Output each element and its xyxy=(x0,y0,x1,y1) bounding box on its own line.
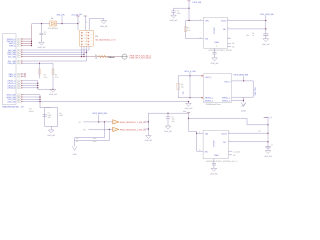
svg-text:PWMboardConn: PWMboardConn xyxy=(206,103,221,106)
svg-text:10M: 10M xyxy=(59,114,63,117)
svg-text:PWM_SENSOR2_1_W5_A1: PWM_SENSOR2_1_W5_A1 xyxy=(120,129,147,132)
svg-text:GND_W5: GND_W5 xyxy=(211,62,219,65)
svg-text:GND: GND xyxy=(214,41,219,44)
svg-text:+3V3_W5: +3V3_W5 xyxy=(192,1,202,4)
svg-text:R7: R7 xyxy=(79,121,81,124)
svg-text:SS14(SMA): SS14(SMA) xyxy=(48,27,58,30)
svg-text:W5: W5 xyxy=(79,13,82,16)
svg-text:AP2112: AP2112 xyxy=(213,28,216,35)
svg-text:SGND: SGND xyxy=(241,109,247,112)
svg-text:GND_W5: GND_W5 xyxy=(49,93,57,96)
svg-text:+3V3_2: +3V3_2 xyxy=(205,76,213,79)
svg-text:10u: 10u xyxy=(246,34,249,37)
svg-text:SD_BoardToArd_1-2-3: SD_BoardToArd_1-2-3 xyxy=(95,38,116,41)
svg-text:GND_W5: GND_W5 xyxy=(210,173,218,176)
svg-text:GND_W5: GND_W5 xyxy=(38,46,46,49)
svg-text:+3V3_SEN_W5: +3V3_SEN_W5 xyxy=(92,112,108,115)
svg-text:C7: C7 xyxy=(271,144,273,147)
svg-text:AP2112: AP2112 xyxy=(212,141,215,148)
svg-text:1u: 1u xyxy=(44,33,46,36)
svg-text:10k: 10k xyxy=(181,86,184,89)
svg-text:VIN: VIN xyxy=(205,133,209,136)
svg-text:VOUT: VOUT xyxy=(221,20,227,23)
svg-text:GPIO4_5: GPIO4_5 xyxy=(7,87,15,90)
svg-text:APWM_1: APWM_1 xyxy=(205,96,214,99)
svg-text:GND_W5: GND_W5 xyxy=(262,43,270,46)
svg-text:SDA_W5: SDA_W5 xyxy=(8,62,16,65)
svg-text:PB11_5: PB11_5 xyxy=(9,75,16,78)
svg-text:GND_W5: GND_W5 xyxy=(100,25,108,28)
svg-text:GND_W5: GND_W5 xyxy=(47,134,55,137)
svg-text:10n: 10n xyxy=(48,116,51,119)
svg-text:C8: C8 xyxy=(76,137,78,140)
svg-text:3V3_W5: 3V3_W5 xyxy=(57,14,66,17)
svg-text:12: 12 xyxy=(18,76,20,78)
svg-text:GND_W5: GND_W5 xyxy=(145,139,153,142)
svg-text:RST_5: RST_5 xyxy=(9,44,15,47)
svg-text:GND: GND xyxy=(214,154,219,157)
svg-text:5V0: 5V0 xyxy=(183,110,186,113)
svg-text:GND_W5: GND_W5 xyxy=(164,130,172,133)
svg-text:10u: 10u xyxy=(258,129,261,132)
svg-text:16: 16 xyxy=(18,88,20,90)
svg-text:+3V3_SEN_W5: +3V3_SEN_W5 xyxy=(233,74,249,77)
svg-text:AP2112K-3.3TRG1_SOT25-5_ALT_X: AP2112K-3.3TRG1_SOT25-5_ALT_X xyxy=(206,160,238,163)
svg-text:AP2112K-3.3TRG1_SOT25: AP2112K-3.3TRG1_SOT25 xyxy=(209,49,232,52)
svg-text:R8: R8 xyxy=(83,129,85,132)
svg-text:+3V3_SEN_W5: +3V3_SEN_W5 xyxy=(260,13,275,16)
svg-text:PWM_SENSOR1_1_W5_A1: PWM_SENSOR1_1_W5_A1 xyxy=(120,121,147,124)
svg-text:4.7k: 4.7k xyxy=(55,76,58,79)
svg-text:2.2u/10V: 2.2u/10V xyxy=(233,150,241,153)
svg-text:5V1_W5: 5V1_W5 xyxy=(8,55,15,58)
svg-text:10: 10 xyxy=(18,63,20,65)
svg-text:4MHz: 4MHz xyxy=(29,110,34,113)
svg-text:PWM1_1: PWM1_1 xyxy=(222,96,231,99)
svg-text:13: 13 xyxy=(18,81,20,83)
svg-text:VOUT: VOUT xyxy=(221,133,227,136)
svg-text:GND_W5: GND_W5 xyxy=(264,155,272,158)
svg-text:GND_W5: GND_W5 xyxy=(170,19,178,22)
svg-text:1u: 1u xyxy=(252,34,254,37)
svg-text:750mA: 750mA xyxy=(107,56,115,59)
svg-text:+3V3_SEN: +3V3_SEN xyxy=(254,87,257,97)
svg-text:USB2ARD45-W5: USB2ARD45-W5 xyxy=(2,106,20,109)
svg-text:D1: D1 xyxy=(51,17,53,20)
svg-text:100n: 100n xyxy=(93,140,97,143)
svg-text:4.7k: 4.7k xyxy=(187,29,190,32)
svg-text:APWM_2: APWM_2 xyxy=(205,99,214,102)
svg-text:PWR_SPLY_5V0_W5_B: PWR_SPLY_5V0_W5_B xyxy=(130,56,152,59)
svg-text:C9: C9 xyxy=(76,140,78,143)
svg-text:+3V3_1: +3V3_1 xyxy=(224,81,232,84)
svg-text:GND_W5: GND_W5 xyxy=(185,107,193,110)
svg-text:100n: 100n xyxy=(177,12,181,15)
svg-text:4.7k: 4.7k xyxy=(44,76,47,79)
svg-text:20: 20 xyxy=(18,101,20,103)
svg-text:GND: GND xyxy=(73,153,78,156)
svg-text:VIN: VIN xyxy=(205,20,209,23)
svg-text:PWM1_2: PWM1_2 xyxy=(222,99,231,102)
svg-text:GND_W5: GND_W5 xyxy=(7,100,15,103)
svg-text:SEL: SEL xyxy=(182,92,185,95)
svg-text:100n: 100n xyxy=(93,137,97,140)
